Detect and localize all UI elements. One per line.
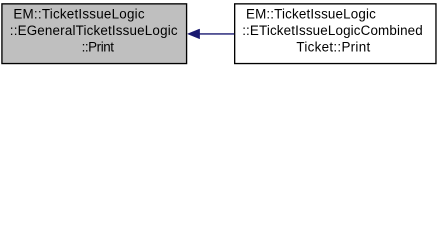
edge wire from right node to left node: [199, 33, 235, 35]
svg-text:Ticket::Print: Ticket::Print: [296, 39, 370, 54]
svg-text:::EGeneralTicketIssueLogic: ::EGeneralTicketIssueLogic: [10, 23, 178, 38]
svg-text:EM::TicketIssueLogic: EM::TicketIssueLogic: [246, 6, 376, 21]
call graph: two nodes connected by an arrow: [0, 0, 439, 67]
node box EM::TicketIssueLogic::EGeneralTicketIssueLogic::Print (current, grey): [2, 4, 187, 64]
edge arrowhead pointing left: [188, 29, 200, 39]
svg-text:EM::TicketIssueLogic: EM::TicketIssueLogic: [13, 6, 144, 21]
svg-text:::Print: ::Print: [82, 39, 115, 54]
node box EM::TicketIssueLogic::ETicketIssueLogicCombinedTicket::Print (white): [235, 4, 436, 64]
svg-text:::ETicketIssueLogicCombined: ::ETicketIssueLogicCombined: [242, 23, 423, 38]
